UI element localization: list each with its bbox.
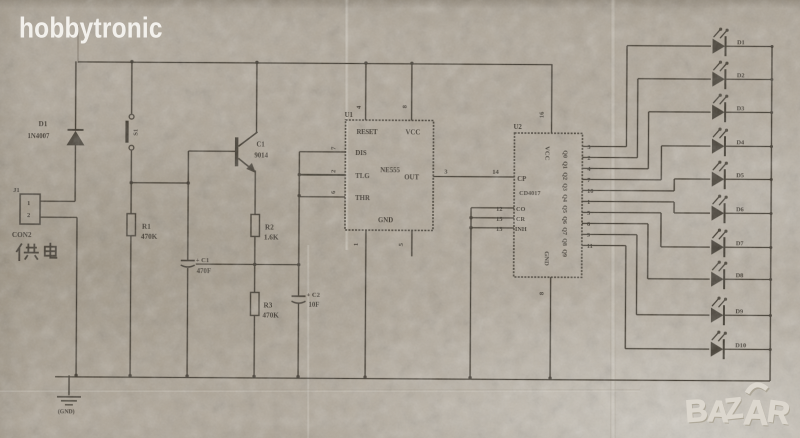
wire 4017 pin 4 (Q2) to LED D3 [582,111,710,173]
wire 555 pin 3 OUT to 4017 pin 14 CP [433,168,514,176]
LED D1 [712,28,773,57]
wire 555 pin 4 to top rail [356,61,368,120]
paper crease vertical center-bottom [306,245,310,438]
net label Q1 [561,161,567,169]
wire 4017 pin 11 (Q9) to LED D10 [581,243,710,349]
wire 555 pin 8 to top rail [402,62,414,121]
op-amp U1 NE555 timer IC body [344,112,434,231]
resistor R3 470K [250,264,279,378]
wire 555 pin 5 stub [398,230,412,256]
wire 4017 pin 7 (Q3) to LED D4 [582,145,710,184]
capacitor C1 470uF electrolytic [180,257,211,378]
wire 4017 pin 8 to ground rail [538,277,552,380]
net label Q6 [561,216,567,224]
resistor R1 470K [126,183,158,378]
net label 供电 (power supply) [16,243,57,262]
paper crease vertical left [344,0,349,250]
LED D10 [711,331,772,360]
LED D7 [711,229,772,258]
wire 4017 pin 2 (Q1) to LED D2 [582,78,710,162]
faint fold mark above top rail [77,26,79,63]
net label Q4 [561,194,567,202]
wire 4017 pin 16 to top rail [539,64,552,133]
LED D6 [711,195,772,224]
IC U2 CD4017 decade counter body [513,124,583,277]
transistor Q1 (C1 9014) NPN [235,132,269,173]
net label Q7 [561,227,567,235]
wire 555 pin 1 to ground rail [352,230,368,379]
wire 555 pin 7 stub [299,146,345,152]
LED D2 [712,61,773,90]
paper crease vertical right [610,0,616,438]
LED D9 [711,297,772,326]
capacitor C2 10uF electrolytic [291,292,321,379]
wire 555 pin 2 stub [299,169,345,175]
wire 4017 pin 10 (Q4) to LED D5 [582,178,710,195]
wire top power rail (+V) [78,62,552,65]
wire bottom ground rail [55,377,770,381]
LED D4 [712,128,773,157]
net label Q2 [561,172,567,180]
wire 4017 pins 12/15/13 tied to ground rail [468,206,514,380]
wire node R2/R3 junction to 555 timing node [196,262,301,266]
wire switch bottom to R1 top node [130,181,190,185]
svg-text:B: B [684,393,709,429]
watermark hobbytronic [19,13,163,45]
wire left vertical from top rail to diode D1 cathode [75,61,77,129]
LED D3 [712,94,773,123]
wire node from R1 top to transistor base / C1 top [187,151,190,260]
wire 4017 pin 3 (Q0) to LED D1 [582,45,711,151]
wire LED cathode bus to ground rail [770,47,772,381]
wire connector J1 pin 2 to ground rail [39,217,79,377]
net label Q3 [561,183,567,191]
net label Q9 [561,249,567,257]
net label Q5 [561,205,567,213]
wire 555 pins 7/2/6 common vertical [297,152,301,296]
wire collector to top rail [255,61,259,133]
net label Q8 [561,238,567,246]
resistor R2 1.6K [251,214,279,264]
svg-text:Z: Z [723,392,744,426]
diode D1 1N4007 [27,120,84,145]
wire 4017 pin 6 (Q7) to LED D8 [582,221,710,279]
paper crease horizontal bottom [0,389,640,392]
connector J1 CON2 [12,187,40,239]
net label Q0 [561,150,567,158]
LED D8 [711,261,772,290]
LED D5 [712,161,773,190]
wire transistor Q1 base wire [188,150,235,152]
wire diode anode down to connector J1 pin 1 [40,145,75,201]
ground symbol GND [57,375,81,415]
wire 4017 pin 9 (Q8) to LED D9 [581,232,709,315]
watermark BAZAR logo [682,378,800,436]
wire emitter down to R2 [254,170,256,214]
switch S1 [127,60,140,183]
wire 4017 pin 5 (Q6) to LED D7 [582,210,710,247]
wire 4017 pin 1 (Q5) to LED D6 [582,199,710,213]
wire 555 pin 6 stub [299,190,345,197]
